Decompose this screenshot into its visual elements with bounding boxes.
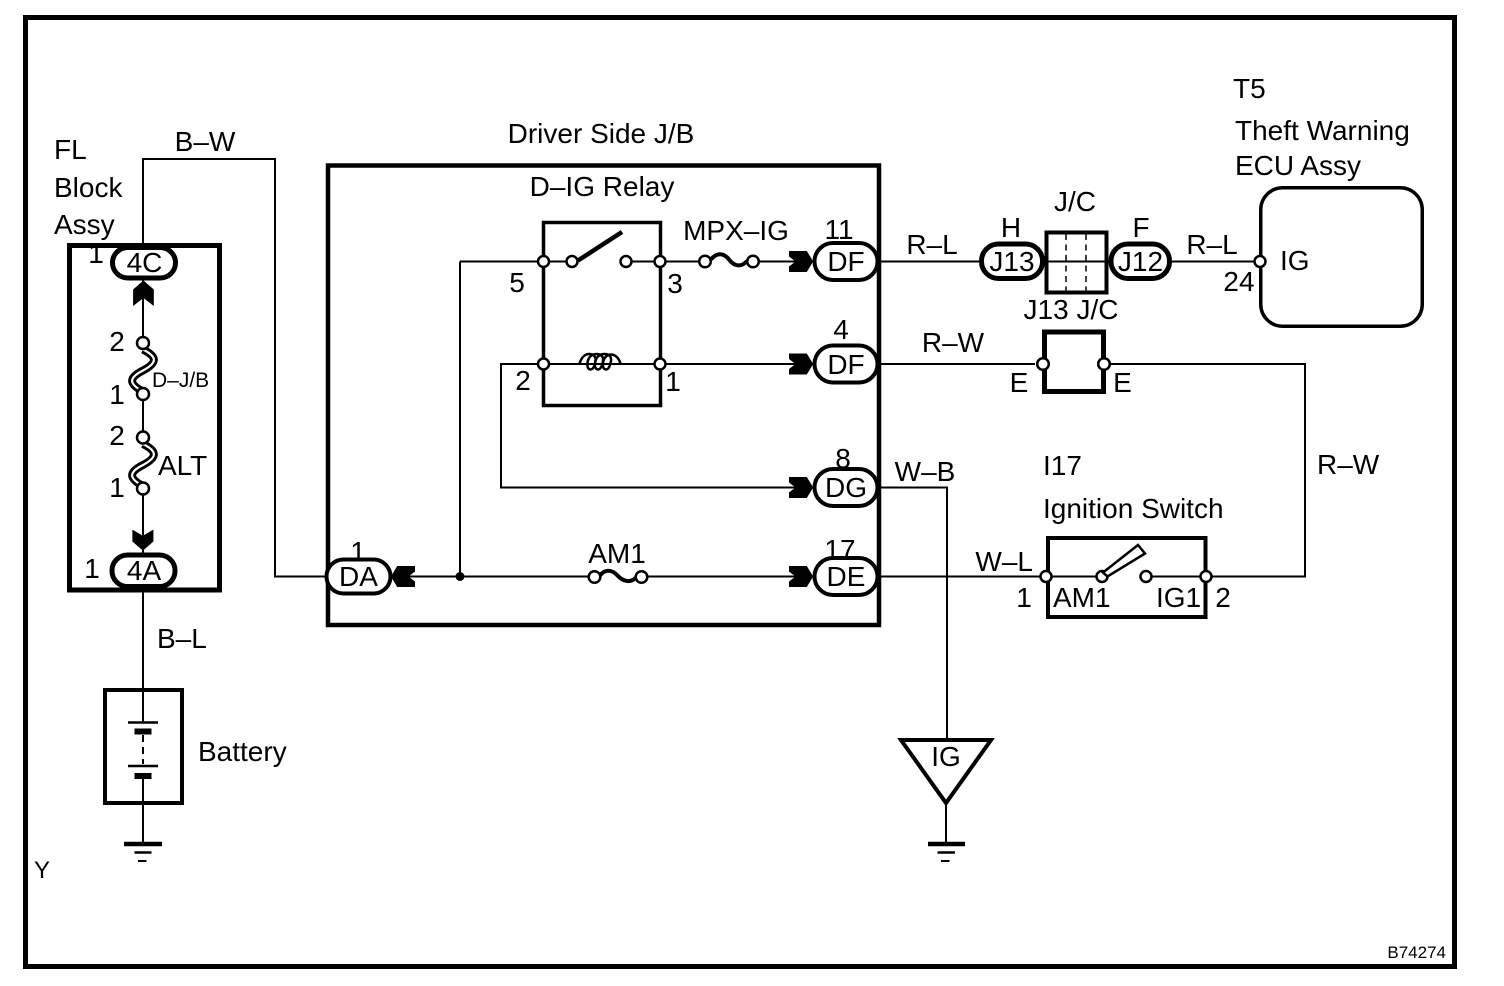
- svg-text:2: 2: [1215, 582, 1231, 613]
- svg-text:Y: Y: [34, 857, 50, 884]
- svg-text:ECU Assy: ECU Assy: [1235, 150, 1361, 181]
- svg-text:DF: DF: [827, 349, 864, 380]
- svg-text:IG1: IG1: [1156, 582, 1201, 613]
- svg-text:24: 24: [1223, 266, 1254, 297]
- svg-text:DA: DA: [339, 561, 378, 592]
- svg-text:R–W: R–W: [922, 327, 985, 358]
- svg-text:E: E: [1113, 367, 1132, 398]
- svg-text:D–IG Relay: D–IG Relay: [530, 171, 675, 202]
- svg-text:ALT: ALT: [158, 450, 207, 481]
- svg-text:2: 2: [109, 420, 125, 451]
- svg-text:Driver Side J/B: Driver Side J/B: [508, 118, 695, 149]
- svg-text:B–L: B–L: [157, 623, 207, 654]
- svg-text:AM1: AM1: [1053, 582, 1111, 613]
- svg-text:D–J/B: D–J/B: [152, 369, 209, 392]
- svg-text:J13: J13: [989, 246, 1034, 277]
- svg-text:8: 8: [835, 443, 851, 474]
- svg-text:FL: FL: [54, 134, 87, 165]
- svg-text:Assy: Assy: [54, 209, 115, 240]
- svg-text:11: 11: [824, 214, 853, 245]
- svg-text:J12: J12: [1118, 246, 1163, 277]
- svg-text:J/C: J/C: [1054, 186, 1096, 217]
- svg-text:H: H: [1001, 212, 1021, 243]
- svg-text:1: 1: [1016, 582, 1032, 613]
- svg-text:DF: DF: [827, 246, 864, 277]
- svg-text:1: 1: [88, 238, 104, 269]
- svg-text:I17: I17: [1043, 450, 1082, 481]
- svg-text:2: 2: [109, 326, 125, 357]
- svg-text:2: 2: [515, 365, 531, 396]
- svg-text:Battery: Battery: [198, 736, 287, 767]
- svg-text:AM1: AM1: [588, 538, 646, 569]
- svg-text:4: 4: [833, 314, 849, 345]
- svg-text:5: 5: [509, 267, 525, 298]
- svg-text:4C: 4C: [127, 247, 163, 278]
- svg-text:DG: DG: [825, 472, 867, 503]
- svg-text:R–L: R–L: [1186, 229, 1237, 260]
- svg-text:IG: IG: [931, 741, 961, 772]
- svg-text:E: E: [1010, 367, 1029, 398]
- svg-text:3: 3: [667, 268, 683, 299]
- svg-text:B–W: B–W: [175, 126, 236, 157]
- svg-text:1: 1: [84, 553, 100, 584]
- svg-text:Block: Block: [54, 172, 123, 203]
- svg-text:IG: IG: [1280, 245, 1310, 276]
- svg-text:J13 J/C: J13 J/C: [1024, 294, 1119, 325]
- svg-text:W–B: W–B: [895, 456, 956, 487]
- svg-text:1: 1: [665, 366, 681, 397]
- svg-text:B74274: B74274: [1387, 943, 1446, 962]
- svg-text:DE: DE: [827, 561, 866, 592]
- svg-text:T5: T5: [1233, 73, 1266, 104]
- svg-text:Theft Warning: Theft Warning: [1235, 115, 1410, 146]
- svg-text:F: F: [1132, 212, 1149, 243]
- svg-text:4A: 4A: [127, 555, 162, 586]
- svg-text:1: 1: [109, 379, 125, 410]
- svg-text:MPX–IG: MPX–IG: [683, 215, 789, 246]
- svg-text:R–W: R–W: [1317, 449, 1380, 480]
- svg-text:W–L: W–L: [975, 546, 1033, 577]
- svg-text:1: 1: [109, 472, 125, 503]
- svg-text:Ignition Switch: Ignition Switch: [1043, 493, 1224, 524]
- svg-text:R–L: R–L: [906, 229, 957, 260]
